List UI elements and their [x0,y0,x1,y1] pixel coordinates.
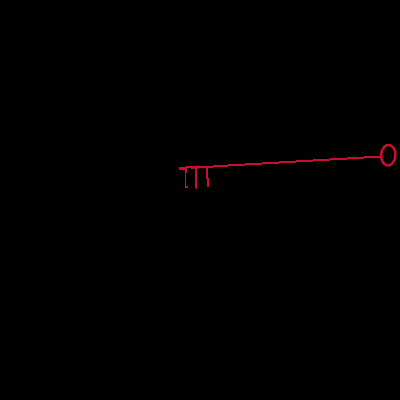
key bow (ring) [381,145,396,165]
key tooth 1 [185,168,188,188]
key shaft overdraw mid [191,166,200,169]
key tooth 2 [195,167,197,189]
key tooth 3 [206,167,209,187]
key shaft (staircase runs) [179,155,382,169]
key shaft overdraw left end [179,169,186,170]
